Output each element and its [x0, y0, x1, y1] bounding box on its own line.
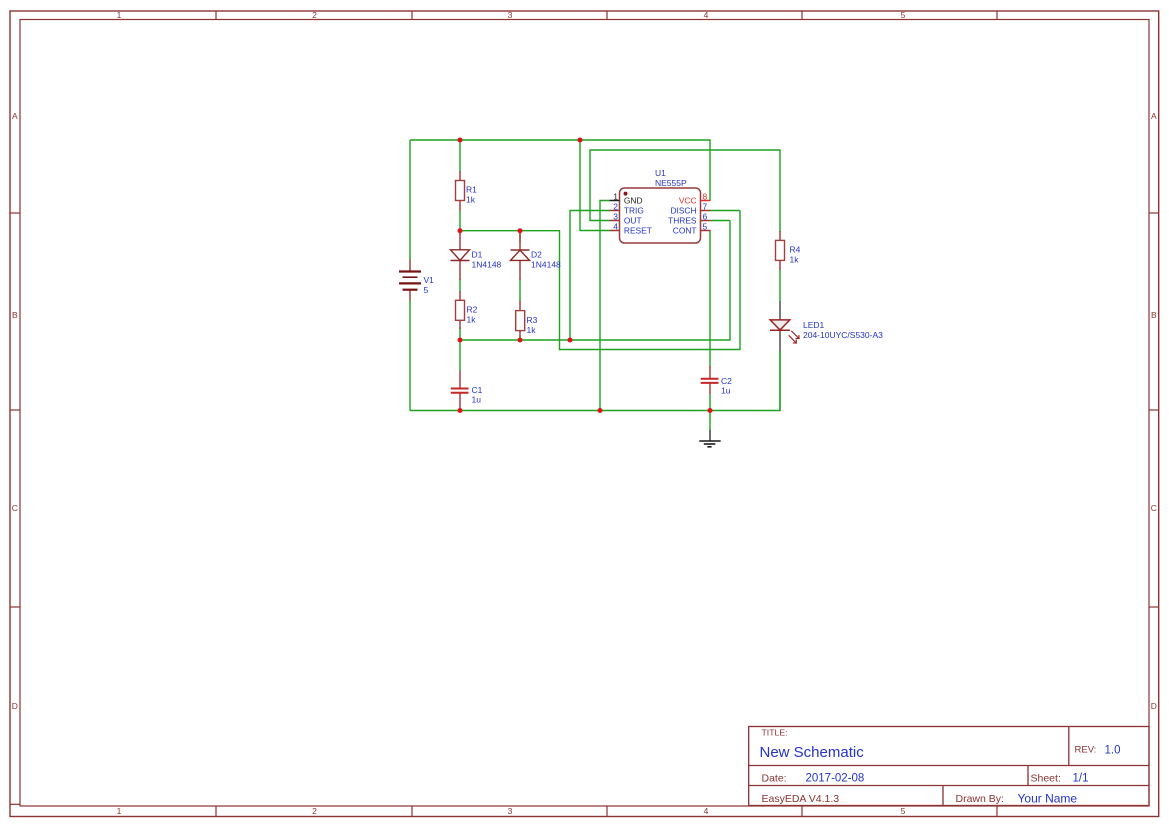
- frame column ticks bottom: [216, 806, 997, 817]
- svg-text:RESET: RESET: [624, 226, 652, 236]
- svg-text:U1: U1: [655, 168, 666, 178]
- svg-text:7: 7: [703, 202, 708, 212]
- svg-text:5: 5: [703, 222, 708, 232]
- junction node R2 bottom: [458, 338, 463, 343]
- resistor R1: [456, 171, 478, 211]
- svg-text:Sheet:: Sheet:: [1031, 773, 1061, 785]
- diode D1: [451, 231, 502, 280]
- wire net VCC top rail: [410, 140, 710, 201]
- svg-text:4: 4: [613, 222, 618, 232]
- LED1 emission arrows: [789, 331, 800, 343]
- svg-text:VCC: VCC: [679, 196, 697, 206]
- svg-text:OUT: OUT: [624, 216, 642, 226]
- wire V1 positive lead up: [409, 140, 411, 260]
- wire OUT net to R4: [590, 150, 780, 232]
- svg-text:D: D: [12, 701, 18, 711]
- svg-text:2: 2: [312, 10, 317, 20]
- svg-text:2: 2: [613, 202, 618, 212]
- svg-text:1k: 1k: [467, 315, 477, 325]
- svg-text:D: D: [1151, 701, 1157, 711]
- svg-text:R4: R4: [790, 245, 801, 255]
- junction node D1 top: [458, 228, 463, 233]
- svg-text:Date:: Date:: [762, 773, 787, 785]
- battery V1: [399, 260, 434, 301]
- svg-text:EasyEDA V4.1.3: EasyEDA V4.1.3: [762, 793, 840, 805]
- resistor R2: [456, 291, 478, 329]
- svg-text:TRIG: TRIG: [624, 206, 644, 216]
- resistor R4: [776, 231, 801, 270]
- wire THRES pin to corner: [711, 220, 731, 222]
- svg-text:3: 3: [613, 212, 618, 222]
- capacitor C2: [701, 366, 732, 396]
- wire THRES rail y340: [460, 221, 730, 341]
- wire D row rail to DISCH net: [460, 211, 740, 350]
- svg-text:1: 1: [117, 806, 122, 816]
- wire CONT to C2 x710: [709, 231, 711, 368]
- svg-text:LED1: LED1: [803, 320, 825, 330]
- wire DISCH pin to corner: [711, 210, 741, 212]
- svg-text:Drawn By:: Drawn By:: [956, 793, 1004, 805]
- wire GND pin down x600: [600, 201, 610, 411]
- svg-text:D2: D2: [531, 250, 542, 260]
- U1 pin 3 OUT stub: [610, 220, 620, 222]
- svg-text:DISCH: DISCH: [670, 206, 696, 216]
- U1 pin 4 RESET stub: [610, 230, 620, 232]
- svg-text:2: 2: [312, 806, 317, 816]
- svg-text:R2: R2: [467, 305, 478, 315]
- svg-text:B: B: [12, 310, 18, 320]
- svg-text:R1: R1: [466, 185, 477, 195]
- svg-text:4: 4: [704, 806, 709, 816]
- wire R2 bottom to 340 rail: [459, 328, 461, 340]
- junction node R1 top: [458, 138, 463, 143]
- svg-text:5: 5: [901, 806, 906, 816]
- junction node GND rail: [598, 408, 603, 413]
- frame row letters right: [1151, 111, 1157, 711]
- wire RESET to top rail x580: [580, 140, 610, 231]
- U1 pin numbers left: [613, 192, 618, 232]
- diode D2: [511, 231, 562, 280]
- svg-text:CONT: CONT: [673, 226, 697, 236]
- capacitor C1: [451, 371, 483, 411]
- U1 pin 7 DISCH stub: [701, 210, 711, 212]
- U1 pin numbers right: [703, 192, 708, 232]
- svg-text:1k: 1k: [790, 255, 800, 265]
- svg-text:Your Name: Your Name: [1018, 792, 1078, 806]
- wire TRIG vertical x570: [570, 211, 610, 341]
- svg-text:B: B: [1151, 310, 1157, 320]
- LED LED1: [770, 301, 883, 351]
- wire C2 bottom to rail: [709, 394, 711, 411]
- U1 pin 8 VCC stub: [701, 200, 711, 202]
- svg-text:1u: 1u: [721, 386, 731, 396]
- wire bottom ground rail: [410, 351, 780, 411]
- frame row ticks right: [1149, 213, 1159, 607]
- svg-text:C2: C2: [721, 376, 732, 386]
- svg-text:8: 8: [703, 192, 708, 202]
- junction node R3 bottom: [518, 338, 523, 343]
- svg-text:A: A: [12, 111, 18, 121]
- svg-text:5: 5: [424, 285, 429, 295]
- svg-text:D1: D1: [472, 250, 483, 260]
- U1 pin names right: [668, 196, 697, 236]
- svg-text:4: 4: [704, 10, 709, 20]
- wire LED bottom green: [779, 351, 781, 411]
- svg-text:C: C: [12, 503, 18, 513]
- svg-text:1u: 1u: [472, 395, 482, 405]
- wire R4 bottom to LED: [779, 269, 781, 302]
- frame row letters left: [12, 111, 18, 711]
- svg-text:2017-02-08: 2017-02-08: [806, 773, 865, 785]
- svg-text:1N4148: 1N4148: [531, 260, 561, 270]
- U1 pin 6 THRES stub: [701, 220, 711, 222]
- svg-text:1/1: 1/1: [1073, 773, 1089, 785]
- U1 pin 5 CONT stub: [701, 230, 711, 232]
- svg-text:TITLE:: TITLE:: [762, 728, 788, 738]
- ground symbol: [699, 430, 720, 447]
- wire ground stem green: [709, 411, 711, 431]
- svg-text:REV:: REV:: [1075, 745, 1097, 756]
- svg-text:1: 1: [613, 192, 618, 202]
- wire R1 branch x460 top: [459, 140, 461, 172]
- svg-text:3: 3: [508, 806, 513, 816]
- svg-text:V1: V1: [424, 275, 435, 285]
- junction node D2 top: [518, 228, 523, 233]
- frame column ticks top: [216, 11, 997, 20]
- frame column numbers top: [117, 10, 906, 20]
- U1 pin 2 TRIG stub: [610, 210, 620, 212]
- wire D2 to R3 segment: [519, 279, 521, 302]
- svg-text:C1: C1: [472, 385, 483, 395]
- junction node C2 bottom: [708, 408, 713, 413]
- svg-text:1.0: 1.0: [1105, 745, 1121, 757]
- U1 pin names left: [624, 196, 652, 236]
- junction node C1 bottom: [458, 408, 463, 413]
- wire D2 top: [519, 231, 521, 242]
- svg-text:New Schematic: New Schematic: [760, 744, 865, 761]
- svg-text:3: 3: [508, 10, 513, 20]
- title block outline: [749, 727, 1149, 806]
- svg-text:5: 5: [901, 10, 906, 20]
- svg-text:1k: 1k: [527, 325, 537, 335]
- svg-text:GND: GND: [624, 196, 643, 206]
- frame column numbers bottom: [117, 806, 906, 816]
- svg-text:1N4148: 1N4148: [472, 260, 502, 270]
- svg-text:C: C: [1151, 503, 1157, 513]
- op-amp U1 NE555P body: [620, 168, 701, 243]
- svg-text:R3: R3: [527, 315, 538, 325]
- svg-text:1: 1: [117, 10, 122, 20]
- svg-text:NE555P: NE555P: [655, 178, 687, 188]
- wire C1 top from rail: [459, 340, 461, 371]
- junction node RESET top rail: [578, 138, 583, 143]
- wire R3 bottom to 340 rail: [519, 336, 521, 340]
- svg-text:THRES: THRES: [668, 216, 697, 226]
- wire D1 to R2 segment: [459, 279, 461, 292]
- wire R1 bottom to D row: [459, 210, 461, 231]
- svg-text:6: 6: [703, 212, 708, 222]
- svg-text:A: A: [1151, 111, 1157, 121]
- U1 pin 1 GND stub: [610, 200, 620, 202]
- wire V1 negative lead down to bottom rail: [409, 300, 411, 411]
- junction node TRIG rail: [568, 338, 573, 343]
- frame row ticks left: [10, 213, 20, 804]
- svg-text:204-10UYC/S530-A3: 204-10UYC/S530-A3: [803, 330, 883, 340]
- resistor R3: [516, 301, 538, 337]
- svg-text:1k: 1k: [466, 195, 476, 205]
